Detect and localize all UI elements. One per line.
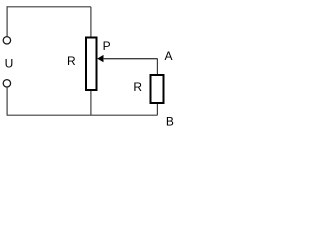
wire potentiometer bottom lead: [90, 91, 92, 115]
wire potentiometer top lead: [90, 7, 92, 37]
wire left rail upper: [6, 6, 8, 36]
wire top from left rail to potentiometer top: [7, 6, 91, 8]
wire resistor bottom lead: [156, 104, 158, 115]
wire bottom: [7, 114, 158, 116]
terminal circle upper: [3, 37, 10, 44]
svg-text:R: R: [67, 54, 76, 68]
terminal circle lower: [3, 80, 10, 87]
svg-text:A: A: [165, 49, 173, 63]
wire wiper to node A down: [156, 58, 158, 74]
svg-text:U: U: [5, 56, 14, 70]
svg-text:R: R: [133, 80, 142, 94]
wiper arrowhead: [97, 55, 103, 62]
resistor body R right: [151, 75, 164, 103]
wire left rail lower: [6, 87, 8, 115]
svg-text:P: P: [103, 39, 111, 53]
potentiometer body R: [86, 38, 97, 91]
svg-text:B: B: [166, 115, 174, 129]
wiper arrow shaft: [103, 58, 157, 60]
